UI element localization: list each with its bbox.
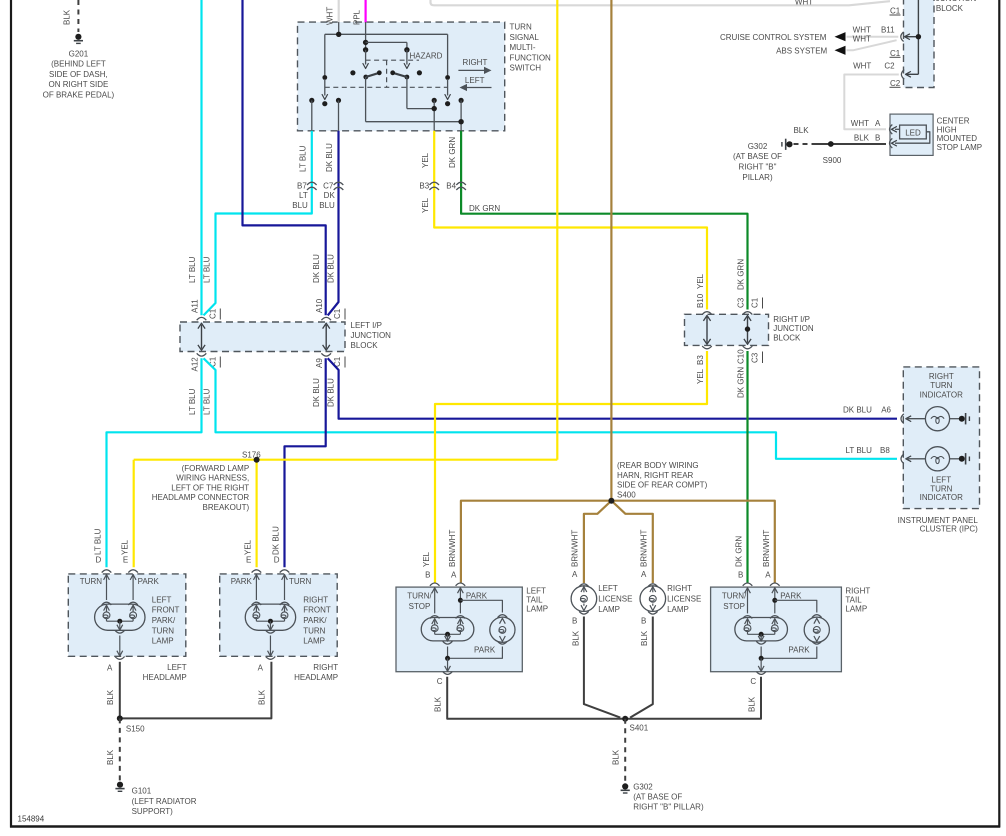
connector B of stop lamp <box>890 138 893 148</box>
right front lamp block body <box>220 574 338 656</box>
right front lamp input posts <box>254 575 260 580</box>
svg-text:B4: B4 <box>446 181 456 190</box>
svg-text:G302: G302 <box>748 142 768 151</box>
svg-text:DK BLU: DK BLU <box>327 254 336 283</box>
right hazard wiper <box>406 50 408 65</box>
svg-text:LEFT: LEFT <box>465 76 485 85</box>
wire WHT to CRUISE CONTROL SYSTEM <box>847 36 899 38</box>
svg-text:DK BLU: DK BLU <box>312 254 321 283</box>
svg-text:TURN: TURN <box>930 381 952 390</box>
wire BLK S900 to stop lamp <box>812 143 886 145</box>
wire BLK left front lamp to S150 <box>119 662 121 719</box>
switch contact pin LT BLU <box>309 98 314 103</box>
svg-text:HEADLAMP: HEADLAMP <box>143 673 187 682</box>
connector A10 arc <box>321 317 331 320</box>
svg-text:STOP: STOP <box>723 602 745 611</box>
svg-text:DK BLU: DK BLU <box>327 378 336 407</box>
svg-text:SWITCH: SWITCH <box>510 64 542 73</box>
svg-text:RIGHT "B": RIGHT "B" <box>739 163 777 172</box>
right front lamp bulb output arcs <box>268 625 274 630</box>
svg-text:A12: A12 <box>191 357 200 372</box>
hazard feed branch <box>366 41 407 43</box>
svg-text:SIDE OF REAR COMPT): SIDE OF REAR COMPT) <box>617 481 708 490</box>
svg-text:RIGHT I/P: RIGHT I/P <box>773 315 810 324</box>
left front lamp input posts <box>104 575 110 580</box>
PPL feed node <box>365 22 367 50</box>
wire WHT across top to C1 <box>431 0 891 5</box>
svg-text:B7: B7 <box>297 181 307 190</box>
svg-text:E: E <box>246 556 251 565</box>
svg-text:PARK: PARK <box>474 645 496 654</box>
right tail lamp connector arcs at top <box>743 583 753 586</box>
stop lamp block body <box>890 114 933 155</box>
svg-text:HAZARD: HAZARD <box>410 52 443 61</box>
svg-text:JUNCTION: JUNCTION <box>351 331 392 340</box>
wire BLK right front lamp to S150 <box>120 662 272 719</box>
svg-text:A6: A6 <box>881 406 891 415</box>
wire WHT into switch <box>338 0 340 23</box>
wire BLK left tail lamp to S401 <box>447 677 625 719</box>
svg-text:LT BLU: LT BLU <box>846 446 873 455</box>
svg-text:FRONT: FRONT <box>152 606 180 615</box>
svg-text:PARK: PARK <box>788 645 810 654</box>
svg-text:ON RIGHT SIDE: ON RIGHT SIDE <box>48 80 108 89</box>
left turn indicator bulb <box>906 456 911 462</box>
svg-text:BRN/WHT: BRN/WHT <box>762 530 771 567</box>
wire BLK to G201 (dashed) <box>77 0 79 32</box>
right license lamp bulb <box>640 586 666 612</box>
svg-text:TAIL: TAIL <box>845 596 862 605</box>
svg-text:S400: S400 <box>617 490 636 499</box>
wire YEL S176 to left front lamp <box>133 460 135 568</box>
left front lamp bulb common junction <box>117 619 122 624</box>
wire YEL B3 to left tail lamp <box>435 351 707 583</box>
right front lamp dual filament bulb <box>245 604 295 630</box>
svg-text:BLK: BLK <box>571 630 580 646</box>
right junction block body <box>685 314 769 345</box>
connector C3 arc (top) <box>743 312 753 315</box>
svg-text:SIGNAL: SIGNAL <box>510 33 540 42</box>
IPC ground left turn <box>959 456 965 462</box>
svg-text:S401: S401 <box>630 724 649 733</box>
ground G302 (right B pillar) <box>786 141 792 147</box>
left front lamp connector arcs at top <box>102 570 112 573</box>
svg-text:RIGHT: RIGHT <box>929 372 954 381</box>
left tail lamp block body <box>396 587 522 672</box>
svg-text:TURN/: TURN/ <box>722 592 747 601</box>
right tail lamp dual filament bulb <box>735 618 788 641</box>
svg-text:DK BLU: DK BLU <box>843 406 872 415</box>
left tail lamp dual filament bulb <box>421 618 474 641</box>
wire DK BLU A9 branch to IPC <box>328 358 897 418</box>
wire DK BLU from switch C7 <box>328 131 339 316</box>
svg-text:WHT: WHT <box>853 34 871 43</box>
svg-text:C1: C1 <box>751 297 760 308</box>
svg-text:WHT: WHT <box>853 61 871 70</box>
svg-text:B8: B8 <box>880 446 890 455</box>
svg-text:RIGHT: RIGHT <box>303 595 328 604</box>
svg-text:A9: A9 <box>315 358 324 368</box>
svg-text:B: B <box>425 571 430 580</box>
svg-text:HEADLAMP CONNECTOR: HEADLAMP CONNECTOR <box>152 493 250 502</box>
svg-text:STOP LAMP: STOP LAMP <box>937 143 983 152</box>
left front lamp dual filament bulb <box>95 604 145 630</box>
svg-text:(BEHIND LEFT: (BEHIND LEFT <box>51 60 106 69</box>
connector C2 internal arrow <box>906 73 918 75</box>
svg-text:RIGHT: RIGHT <box>313 663 338 672</box>
svg-text:PARK: PARK <box>138 577 160 586</box>
svg-text:DK GRN: DK GRN <box>469 204 500 213</box>
svg-text:OF BRAKE PEDAL): OF BRAKE PEDAL) <box>43 91 115 100</box>
svg-text:C2: C2 <box>884 61 895 70</box>
svg-text:BLK: BLK <box>793 126 809 135</box>
left turn wiper arm <box>324 34 326 77</box>
svg-text:S176: S176 <box>242 450 261 459</box>
svg-text:LICENSE: LICENSE <box>667 595 701 604</box>
diagram border frame <box>10 0 12 828</box>
svg-text:BLK: BLK <box>433 696 442 712</box>
svg-text:A: A <box>107 664 113 673</box>
svg-text:LEFT I/P: LEFT I/P <box>351 321 382 330</box>
right front lamp bulb common junction <box>268 619 273 624</box>
svg-text:DK GRN: DK GRN <box>736 259 745 290</box>
pass-through arrow C3-C10 with tap <box>747 317 749 343</box>
left wiper neutral contact dot <box>322 101 327 106</box>
IPC ground right turn <box>959 416 965 422</box>
svg-text:FRONT: FRONT <box>303 606 331 615</box>
svg-text:A: A <box>641 570 647 579</box>
left tail lamp park bulb <box>498 615 508 618</box>
svg-text:(AT BASE OF: (AT BASE OF <box>633 793 682 802</box>
wire YEL from switch B3 <box>434 131 707 310</box>
wire DK BLU A9 to right front lamp <box>285 358 326 567</box>
svg-text:CENTER: CENTER <box>937 117 970 126</box>
wire WHT to ABS SYSTEM <box>847 40 897 50</box>
svg-text:LAMP: LAMP <box>598 605 620 614</box>
svg-text:PPL: PPL <box>353 9 362 25</box>
pass-through arrow B10-B3 <box>706 317 708 343</box>
wire YEL S176 to right front lamp <box>256 460 258 568</box>
ground G201 <box>75 34 81 40</box>
svg-text:BLK: BLK <box>748 696 757 712</box>
svg-text:RIGHT: RIGHT <box>462 58 487 67</box>
svg-text:BLK: BLK <box>640 630 649 646</box>
wire BLK right tail lamp to S401 <box>625 677 761 719</box>
right wiper neutral contact dot <box>445 101 450 106</box>
wire DK GRN from switch B4 <box>461 131 747 310</box>
svg-text:SUPPORT): SUPPORT) <box>132 807 174 816</box>
svg-text:LEFT: LEFT <box>152 595 172 604</box>
right tail lamp input posts <box>745 588 751 593</box>
svg-text:RIGHT "B" PILLAR): RIGHT "B" PILLAR) <box>633 803 704 812</box>
svg-text:B11: B11 <box>881 25 895 34</box>
svg-text:BLK: BLK <box>258 689 267 705</box>
svg-text:FUNCTION: FUNCTION <box>510 53 552 62</box>
connector B4 <box>456 182 466 185</box>
svg-text:CRUISE CONTROL SYSTEM: CRUISE CONTROL SYSTEM <box>720 33 827 42</box>
splice S900 <box>828 141 834 147</box>
svg-text:B3: B3 <box>696 355 705 365</box>
svg-text:HARN, RIGHT REAR: HARN, RIGHT REAR <box>617 471 694 480</box>
wire LT BLU from switch B7 <box>204 131 312 316</box>
switch contact pin DK BLU <box>336 98 341 103</box>
svg-text:YEL: YEL <box>421 152 430 168</box>
svg-text:BRN/WHT: BRN/WHT <box>570 530 579 567</box>
svg-text:YEL: YEL <box>422 551 431 567</box>
connector C7 <box>334 182 344 185</box>
svg-text:DK GRN: DK GRN <box>448 137 457 168</box>
svg-text:WHT: WHT <box>326 7 335 25</box>
svg-text:D: D <box>274 556 280 565</box>
svg-text:BLK: BLK <box>611 749 620 765</box>
connector B8 arc <box>901 454 904 464</box>
connector A12 arc <box>197 353 207 356</box>
right license lamp connector arc bottom <box>648 611 658 614</box>
switch contact pin DK GRN <box>459 98 464 103</box>
hazard mechanical linkage (dashed) <box>366 59 419 61</box>
svg-text:LAMP: LAMP <box>667 605 689 614</box>
svg-text:S900: S900 <box>823 156 842 165</box>
connector A11 arc <box>197 317 207 320</box>
svg-text:LICENSE: LICENSE <box>598 595 632 604</box>
svg-text:LT BLU: LT BLU <box>188 256 197 283</box>
svg-text:B: B <box>738 571 743 580</box>
wire BLK left license lamp to S401 <box>584 617 620 718</box>
svg-text:154894: 154894 <box>18 815 45 824</box>
splice S401 <box>622 716 628 722</box>
svg-text:B: B <box>875 134 880 143</box>
svg-text:LED: LED <box>905 128 921 137</box>
svg-text:C1: C1 <box>209 308 218 319</box>
svg-text:CLUSTER (IPC): CLUSTER (IPC) <box>920 525 979 534</box>
svg-text:INDICATOR: INDICATOR <box>920 390 963 399</box>
svg-text:B10: B10 <box>696 293 705 308</box>
svg-text:C10: C10 <box>736 349 745 364</box>
svg-text:A: A <box>572 570 578 579</box>
wire BRN/WHT S400 to right license lamp <box>611 501 652 583</box>
svg-text:PARK: PARK <box>231 577 253 586</box>
svg-text:(REAR BODY WIRING: (REAR BODY WIRING <box>617 461 699 470</box>
svg-text:LEFT: LEFT <box>932 476 952 485</box>
svg-text:LAMP: LAMP <box>303 637 325 646</box>
svg-text:DK BLU: DK BLU <box>272 526 281 555</box>
svg-text:BLK: BLK <box>63 9 72 25</box>
svg-text:BLU: BLU <box>292 201 308 210</box>
left license lamp connector arc top <box>579 584 589 587</box>
svg-text:BLOCK: BLOCK <box>351 341 379 350</box>
svg-text:HEADLAMP: HEADLAMP <box>294 673 338 682</box>
hazard right wiper to YEL pin <box>406 77 408 109</box>
svg-text:HIGH: HIGH <box>937 125 957 134</box>
svg-text:BLU: BLU <box>319 201 335 210</box>
pass-through arrow A11-A12 <box>201 325 203 349</box>
ground G302 (bottom) <box>622 783 628 789</box>
svg-text:C3: C3 <box>736 297 745 308</box>
svg-text:RIGHT: RIGHT <box>667 584 692 593</box>
IPC block body <box>903 367 979 509</box>
svg-text:C1: C1 <box>333 308 342 319</box>
connector C10 arc (bottom) <box>743 346 753 349</box>
svg-text:B: B <box>572 617 577 626</box>
svg-text:TURN: TURN <box>152 626 174 635</box>
connector A9 arc <box>321 353 331 356</box>
svg-text:A: A <box>875 119 881 128</box>
svg-text:SIDE OF DASH,: SIDE OF DASH, <box>49 70 108 79</box>
right front lamp connector arcs at top <box>252 570 262 573</box>
svg-text:A11: A11 <box>191 299 200 313</box>
svg-text:DK BLU: DK BLU <box>325 143 334 172</box>
svg-text:LAMP: LAMP <box>526 605 548 614</box>
wire BLK right license lamp to S401 <box>630 617 653 718</box>
svg-text:LAMP: LAMP <box>152 637 174 646</box>
wire WHT C2 to stop lamp <box>844 75 899 130</box>
left hazard wiper <box>365 50 367 65</box>
left tail lamp PARK branch junction <box>458 598 463 603</box>
svg-text:DK GRN: DK GRN <box>735 536 744 567</box>
svg-text:PILLAR): PILLAR) <box>742 173 773 182</box>
svg-text:TURN: TURN <box>303 626 325 635</box>
left junction block body <box>180 322 345 352</box>
svg-text:LT BLU: LT BLU <box>298 145 307 172</box>
connector B3 <box>429 182 439 185</box>
svg-text:BRN/WHT: BRN/WHT <box>448 530 457 567</box>
wire DK GRN C10 to right tail lamp <box>746 351 748 583</box>
svg-text:WHT: WHT <box>853 25 871 34</box>
wire YEL S176 horizontal <box>134 459 558 461</box>
svg-text:C1: C1 <box>890 49 901 58</box>
left license lamp bulb <box>571 586 597 612</box>
svg-text:LAMP: LAMP <box>845 605 867 614</box>
svg-text:G101: G101 <box>132 787 152 796</box>
svg-text:LT BLU: LT BLU <box>188 388 197 415</box>
svg-text:LEFT: LEFT <box>167 663 187 672</box>
wire BRN/WHT S400 to left tail lamp A <box>461 501 612 583</box>
LED element <box>900 125 927 139</box>
svg-text:TURN: TURN <box>289 577 311 586</box>
svg-text:YEL: YEL <box>696 273 705 289</box>
junction block internal bus <box>917 0 919 74</box>
svg-text:BREAKOUT): BREAKOUT) <box>203 503 250 512</box>
svg-text:LT BLU: LT BLU <box>203 388 212 415</box>
svg-text:E: E <box>123 556 128 565</box>
svg-text:PARK: PARK <box>466 591 488 600</box>
svg-text:LEFT OF THE RIGHT: LEFT OF THE RIGHT <box>171 483 249 492</box>
svg-text:RIGHT: RIGHT <box>845 586 870 595</box>
svg-text:D: D <box>96 556 102 565</box>
svg-text:YEL: YEL <box>421 197 430 213</box>
svg-text:WIRING HARNESS,: WIRING HARNESS, <box>176 474 249 483</box>
wire BLK dashed to G302 <box>624 719 626 782</box>
left tail lamp output junction <box>445 656 450 661</box>
left front lamp block body <box>68 574 186 656</box>
svg-text:LEFT: LEFT <box>526 586 546 595</box>
svg-text:A10: A10 <box>315 298 324 313</box>
svg-text:PARK/: PARK/ <box>303 616 327 625</box>
svg-text:TURN/: TURN/ <box>407 592 432 601</box>
wire BRN/WHT S400 to left license lamp <box>584 501 612 583</box>
svg-text:LT BLU: LT BLU <box>94 528 103 555</box>
wire BLK dashed to G101 <box>119 718 121 780</box>
left tail lamp connector arcs at top <box>430 583 440 586</box>
svg-text:C2: C2 <box>890 79 901 88</box>
connector A of stop lamp <box>890 125 893 135</box>
wire LT BLU A12 branch to IPC <box>204 358 898 459</box>
right turn indicator bulb <box>906 416 911 422</box>
connector B11 internal arrow <box>905 36 918 38</box>
svg-text:C: C <box>750 677 756 686</box>
svg-text:BLK: BLK <box>106 749 115 765</box>
svg-text:TURN: TURN <box>510 23 532 32</box>
svg-text:(FORWARD LAMP: (FORWARD LAMP <box>182 464 250 473</box>
svg-text:TURN: TURN <box>930 484 952 493</box>
connector B3 arc (bottom) <box>702 346 712 349</box>
wiper coupling line (dashed) <box>325 86 448 88</box>
svg-text:C: C <box>437 677 443 686</box>
svg-text:A: A <box>451 571 457 580</box>
svg-text:LT BLU: LT BLU <box>203 256 212 283</box>
switch feed bus from WHT <box>338 22 340 34</box>
connector A6 arc <box>901 414 904 424</box>
left hazard fixed contact <box>350 70 355 75</box>
svg-text:B: B <box>641 617 646 626</box>
svg-text:WHT: WHT <box>851 119 869 128</box>
svg-text:A: A <box>765 571 771 580</box>
svg-text:BRN/WHT: BRN/WHT <box>639 530 648 567</box>
svg-text:TAIL: TAIL <box>526 596 543 605</box>
svg-text:DK GRN: DK GRN <box>736 367 745 398</box>
svg-text:PARK/: PARK/ <box>152 616 176 625</box>
svg-text:A: A <box>258 664 264 673</box>
wire PPL into switch <box>365 0 367 23</box>
svg-text:S150: S150 <box>126 725 145 734</box>
left tail lamp input posts <box>432 588 438 593</box>
ground G101 <box>117 782 123 788</box>
switch contact pin YEL <box>432 98 437 103</box>
svg-text:YEL: YEL <box>244 539 253 555</box>
wire LT BLU A12 to left front lamp <box>107 358 202 567</box>
splice S150 <box>117 715 123 721</box>
svg-text:BLK: BLK <box>854 134 870 143</box>
svg-text:(AT BASE OF: (AT BASE OF <box>733 152 782 161</box>
svg-text:WHT: WHT <box>795 0 813 7</box>
svg-text:C7: C7 <box>323 181 334 190</box>
svg-text:YEL: YEL <box>120 539 129 555</box>
left front lamp bulb output arcs <box>117 625 123 630</box>
right tail lamp park bulb <box>812 615 822 618</box>
right tail lamp output junction <box>759 656 764 661</box>
svg-text:JUNCTION: JUNCTION <box>773 324 814 333</box>
svg-text:G201: G201 <box>69 49 89 58</box>
connector B10 arc <box>702 312 712 315</box>
svg-text:TURN: TURN <box>80 577 102 586</box>
svg-text:BLK: BLK <box>106 689 115 705</box>
right tail lamp PARK branch junction <box>772 598 777 603</box>
svg-text:MULTI-: MULTI- <box>510 43 536 52</box>
svg-text:ABS SYSTEM: ABS SYSTEM <box>776 46 827 55</box>
right turn wiper arm <box>447 34 449 77</box>
svg-text:PARK: PARK <box>780 591 802 600</box>
svg-text:MOUNTED: MOUNTED <box>937 134 978 143</box>
wire BRN/WHT from top to S400 <box>610 0 612 501</box>
svg-text:BLOCK: BLOCK <box>773 334 801 343</box>
svg-text:DK: DK <box>324 191 336 200</box>
svg-text:LT: LT <box>299 191 308 200</box>
connector B7 <box>307 182 317 185</box>
left license lamp connector arc bottom <box>579 611 589 614</box>
svg-text:DK BLU: DK BLU <box>312 378 321 407</box>
svg-text:INDICATOR: INDICATOR <box>920 493 963 502</box>
wire DK BLU from top jog to A10 <box>243 0 326 315</box>
